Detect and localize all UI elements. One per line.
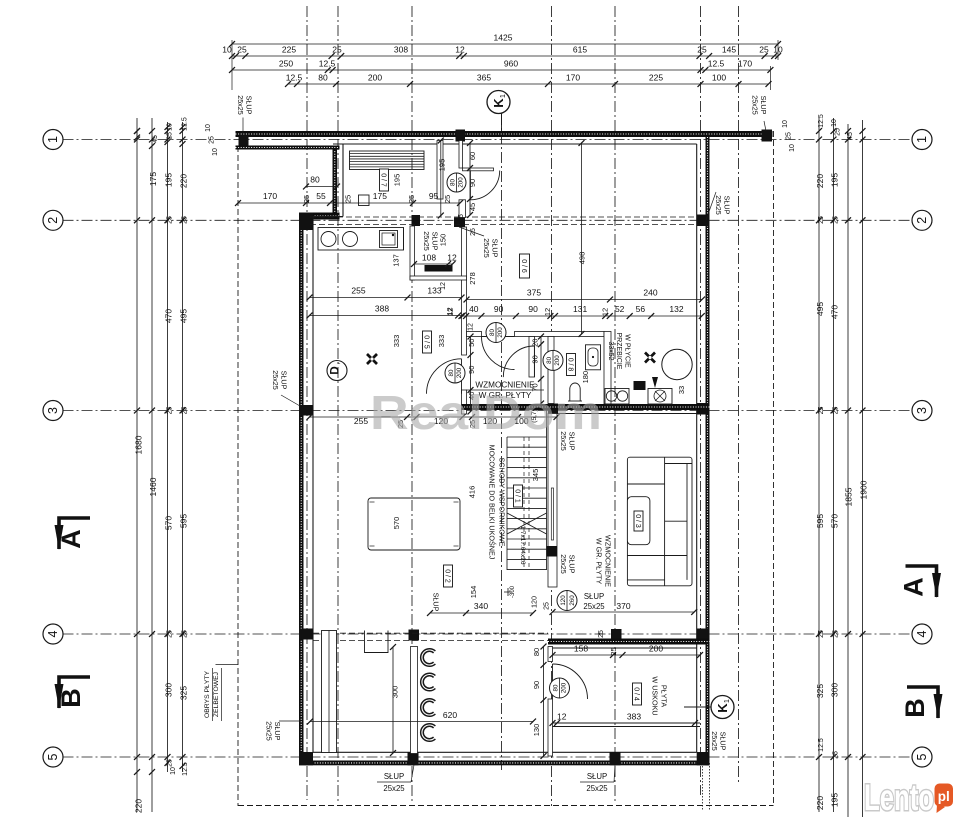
svg-text:MOCOWANE DO BELKI UKOŚNEJ: MOCOWANE DO BELKI UKOŚNEJ: [488, 445, 497, 560]
svg-text:195: 195: [830, 793, 840, 807]
svg-text:365: 365: [477, 73, 491, 83]
svg-text:108: 108: [422, 253, 436, 263]
svg-text:90: 90: [467, 366, 476, 374]
svg-text:300: 300: [164, 683, 174, 697]
svg-text:40: 40: [469, 304, 479, 314]
svg-text:80: 80: [553, 684, 560, 691]
svg-text:90: 90: [531, 355, 540, 363]
svg-text:498: 498: [578, 252, 587, 265]
svg-text:100: 100: [712, 73, 726, 83]
svg-text:132: 132: [669, 304, 683, 314]
svg-text:90: 90: [528, 304, 538, 314]
svg-text:RealDom: RealDom: [370, 387, 602, 440]
svg-text:25: 25: [407, 195, 416, 203]
svg-text:195: 195: [830, 173, 840, 187]
svg-text:25: 25: [786, 132, 793, 140]
svg-text:375: 375: [527, 288, 541, 298]
svg-text:10: 10: [170, 767, 177, 775]
svg-text:50: 50: [467, 339, 476, 347]
svg-text:25x25: 25x25: [271, 370, 280, 390]
svg-text:25: 25: [344, 195, 353, 203]
svg-text:SŁUP: SŁUP: [432, 593, 441, 612]
svg-text:1425: 1425: [494, 33, 513, 43]
svg-text:170: 170: [263, 191, 277, 201]
svg-text:25x25: 25x25: [236, 95, 245, 115]
svg-text:345: 345: [531, 469, 540, 482]
svg-text:33: 33: [677, 386, 686, 394]
svg-text:A: A: [56, 529, 86, 549]
svg-text:12: 12: [543, 308, 552, 316]
svg-text:25: 25: [759, 45, 769, 55]
svg-text:12.5: 12.5: [708, 59, 725, 69]
svg-text:495: 495: [179, 309, 189, 323]
svg-text:960: 960: [504, 59, 518, 69]
svg-text:340: 340: [474, 601, 488, 611]
svg-text:80: 80: [318, 73, 328, 83]
svg-text:10: 10: [222, 45, 232, 55]
svg-text:25x25: 25x25: [383, 784, 405, 793]
svg-text:SŁUP: SŁUP: [384, 772, 404, 781]
svg-text:495: 495: [815, 302, 825, 316]
svg-text:1: 1: [915, 136, 929, 143]
svg-text:220: 220: [815, 174, 825, 188]
svg-text:570: 570: [830, 514, 840, 528]
svg-text:25: 25: [470, 228, 477, 236]
svg-text:25x25: 25x25: [482, 238, 491, 258]
svg-text:1: 1: [724, 699, 731, 703]
svg-text:200: 200: [458, 177, 465, 188]
svg-text:200: 200: [497, 327, 504, 338]
svg-text:SCHODY WSPORNIKOWE: SCHODY WSPORNIKOWE: [498, 458, 507, 547]
svg-text:25x25: 25x25: [586, 784, 608, 793]
svg-text:2: 2: [46, 217, 60, 224]
svg-text:260: 260: [569, 595, 576, 606]
svg-text:12.5: 12.5: [286, 73, 303, 83]
svg-text:12.5: 12.5: [818, 738, 825, 752]
svg-text:255: 255: [351, 286, 365, 296]
svg-text:12.5: 12.5: [182, 117, 189, 131]
svg-text:25x25: 25x25: [422, 231, 431, 251]
svg-text:1680: 1680: [134, 435, 144, 454]
svg-text:175: 175: [148, 172, 158, 186]
svg-text:10: 10: [205, 124, 212, 132]
svg-text:45: 45: [152, 135, 159, 143]
svg-text:45: 45: [847, 132, 854, 140]
svg-text:10: 10: [789, 144, 796, 152]
svg-text:1: 1: [500, 94, 507, 98]
svg-text:80: 80: [450, 179, 457, 186]
svg-text:PŁYTA: PŁYTA: [660, 685, 669, 707]
svg-text:200: 200: [456, 367, 463, 378]
svg-text:10: 10: [212, 148, 219, 156]
svg-text:12.5: 12.5: [319, 59, 336, 69]
svg-text:131: 131: [573, 304, 587, 314]
svg-text:308: 308: [394, 45, 408, 55]
svg-text:200: 200: [554, 355, 561, 366]
svg-text:1: 1: [46, 136, 60, 143]
svg-text:3: 3: [915, 407, 929, 414]
svg-text:90: 90: [468, 179, 477, 187]
svg-text:25: 25: [167, 759, 174, 767]
svg-text:195: 195: [393, 174, 402, 187]
svg-text:1855: 1855: [844, 487, 854, 506]
svg-text:25: 25: [697, 45, 707, 55]
svg-text:25: 25: [302, 195, 311, 203]
svg-text:12.5: 12.5: [182, 762, 189, 776]
svg-text:25: 25: [167, 630, 174, 638]
svg-text:220: 220: [134, 799, 144, 813]
svg-text:145: 145: [722, 45, 736, 55]
svg-text:333: 333: [392, 335, 401, 348]
svg-text:154: 154: [469, 586, 478, 599]
svg-text:250: 250: [279, 59, 293, 69]
svg-text:80: 80: [532, 648, 541, 656]
svg-text:180: 180: [581, 371, 590, 384]
svg-text:80: 80: [310, 175, 320, 185]
svg-text:10: 10: [167, 123, 174, 131]
svg-text:0 / 6: 0 / 6: [520, 259, 527, 273]
svg-text:Lento: Lento: [864, 777, 934, 817]
svg-text:56: 56: [636, 304, 646, 314]
svg-text:SŁUP: SŁUP: [584, 592, 604, 601]
svg-text:12: 12: [557, 712, 567, 722]
svg-text:25: 25: [818, 407, 825, 415]
svg-text:1900: 1900: [859, 480, 869, 499]
svg-text:25: 25: [332, 45, 342, 55]
svg-text:0 / 3: 0 / 3: [634, 514, 641, 528]
svg-text:4: 4: [46, 630, 60, 637]
svg-text:25: 25: [167, 407, 174, 415]
svg-text:200: 200: [561, 682, 568, 693]
svg-text:12: 12: [447, 253, 457, 263]
svg-text:325: 325: [179, 686, 189, 700]
svg-text:25: 25: [182, 630, 189, 638]
svg-text:25: 25: [598, 630, 605, 638]
svg-text:5: 5: [46, 753, 60, 760]
svg-text:120: 120: [560, 595, 567, 606]
svg-text:4: 4: [915, 630, 929, 637]
svg-text:12: 12: [601, 308, 610, 316]
svg-text:95: 95: [429, 191, 439, 201]
svg-text:OBRYS PŁYTY: OBRYS PŁYTY: [204, 670, 211, 718]
svg-text:K: K: [715, 703, 730, 713]
svg-text:220: 220: [815, 796, 825, 810]
svg-text:388: 388: [375, 304, 389, 314]
svg-text:0 / 8: 0 / 8: [566, 358, 573, 372]
svg-text:12: 12: [468, 323, 475, 331]
svg-text:80: 80: [546, 356, 553, 363]
svg-text:10: 10: [782, 120, 789, 128]
svg-text:90: 90: [494, 304, 504, 314]
svg-text:278: 278: [468, 272, 477, 285]
svg-text:300: 300: [391, 686, 400, 699]
svg-text:333: 333: [437, 335, 446, 348]
svg-text:615: 615: [573, 45, 587, 55]
svg-text:195: 195: [438, 159, 447, 172]
svg-text:255: 255: [354, 416, 368, 426]
svg-text:10: 10: [831, 119, 838, 127]
svg-text:25: 25: [609, 647, 618, 655]
svg-text:80: 80: [448, 369, 455, 376]
svg-text:220: 220: [179, 174, 189, 188]
svg-text:595: 595: [179, 514, 189, 528]
svg-text:W USKOKU: W USKOKU: [651, 676, 660, 715]
svg-text:60: 60: [468, 152, 477, 160]
svg-text:25: 25: [237, 45, 247, 55]
svg-text:ŻELBETOWEJ: ŻELBETOWEJ: [211, 672, 220, 717]
svg-text:0 / 2: 0 / 2: [443, 569, 450, 583]
svg-text:416: 416: [468, 486, 477, 499]
svg-text:0 / 5: 0 / 5: [422, 335, 429, 349]
svg-text:25: 25: [835, 128, 842, 136]
svg-text:A: A: [899, 577, 929, 597]
svg-text:25x25: 25x25: [751, 95, 760, 115]
svg-text:200: 200: [649, 644, 663, 654]
svg-text:325: 325: [815, 684, 825, 698]
svg-text:25x25: 25x25: [710, 731, 719, 751]
svg-text:300: 300: [830, 683, 840, 697]
svg-text:620: 620: [443, 710, 457, 720]
svg-text:25: 25: [167, 216, 174, 224]
svg-text:130: 130: [532, 724, 541, 737]
svg-text:137: 137: [392, 254, 401, 267]
svg-text:25x25: 25x25: [559, 554, 568, 574]
svg-text:25: 25: [182, 216, 189, 224]
svg-text:25x25: 25x25: [265, 721, 274, 741]
svg-text:55: 55: [316, 191, 326, 201]
svg-text:25: 25: [833, 407, 840, 415]
svg-text:25: 25: [443, 195, 452, 203]
svg-text:W GR. PŁYTY: W GR. PŁYTY: [595, 538, 604, 585]
svg-text:12.5: 12.5: [818, 114, 825, 128]
svg-text:25: 25: [544, 602, 551, 610]
svg-text:33x52: 33x52: [607, 341, 614, 360]
svg-text:25x25: 25x25: [714, 195, 723, 215]
svg-text:570: 570: [164, 516, 174, 530]
svg-text:80: 80: [489, 329, 496, 336]
svg-text:WZMOCNIENIE: WZMOCNIENIE: [604, 535, 613, 587]
svg-text:52: 52: [615, 304, 625, 314]
svg-text:D: D: [330, 366, 342, 374]
svg-text:170: 170: [566, 73, 580, 83]
svg-text:240: 240: [643, 288, 657, 298]
svg-text:25: 25: [458, 214, 465, 222]
svg-text:25: 25: [182, 407, 189, 415]
svg-text:150: 150: [439, 234, 448, 247]
svg-text:25: 25: [833, 751, 840, 759]
svg-text:B: B: [56, 688, 86, 708]
svg-text:25: 25: [818, 216, 825, 224]
svg-text:0 / 4: 0 / 4: [632, 687, 639, 701]
svg-text:570: 570: [392, 517, 401, 530]
svg-text:0 / 7: 0 / 7: [379, 173, 386, 187]
svg-text:470: 470: [164, 309, 174, 323]
svg-text:25: 25: [833, 630, 840, 638]
svg-text:20: 20: [531, 339, 540, 347]
svg-text:25: 25: [818, 630, 825, 638]
svg-text:595: 595: [815, 514, 825, 528]
svg-text:1460: 1460: [148, 477, 158, 496]
svg-text:195: 195: [164, 173, 174, 187]
svg-text:B: B: [900, 698, 930, 718]
svg-text:2: 2: [915, 217, 929, 224]
svg-text:12: 12: [446, 308, 455, 316]
svg-text:383: 383: [627, 712, 641, 722]
svg-text:pl: pl: [938, 789, 950, 804]
svg-text:200: 200: [368, 73, 382, 83]
svg-text:120: 120: [530, 596, 539, 608]
svg-text:PRZEBICIE: PRZEBICIE: [615, 333, 622, 370]
svg-text:133: 133: [427, 286, 441, 296]
svg-text:0 / 1: 0 / 1: [513, 489, 520, 503]
svg-text:25: 25: [209, 136, 216, 144]
svg-text:25x25: 25x25: [583, 602, 605, 611]
svg-text:225: 225: [649, 73, 663, 83]
svg-text:370: 370: [616, 601, 630, 611]
svg-text:K: K: [491, 98, 506, 108]
svg-text:W PŁYCIE: W PŁYCIE: [624, 334, 631, 368]
svg-text:225: 225: [282, 45, 296, 55]
svg-text:SŁUP: SŁUP: [587, 772, 607, 781]
svg-text:158: 158: [574, 644, 588, 654]
svg-text:25: 25: [833, 216, 840, 224]
svg-text:5: 5: [915, 753, 929, 760]
svg-text:90: 90: [532, 681, 541, 689]
svg-text:175: 175: [373, 191, 387, 201]
svg-text:25: 25: [167, 132, 174, 140]
svg-text:12: 12: [455, 45, 465, 55]
svg-text:-300: -300: [510, 585, 516, 598]
svg-text:1 7x17.64x26: 1 7x17.64x26: [519, 525, 526, 564]
svg-text:3: 3: [46, 407, 60, 414]
svg-text:170: 170: [738, 59, 752, 69]
svg-text:45: 45: [468, 203, 477, 211]
svg-text:470: 470: [830, 305, 840, 319]
